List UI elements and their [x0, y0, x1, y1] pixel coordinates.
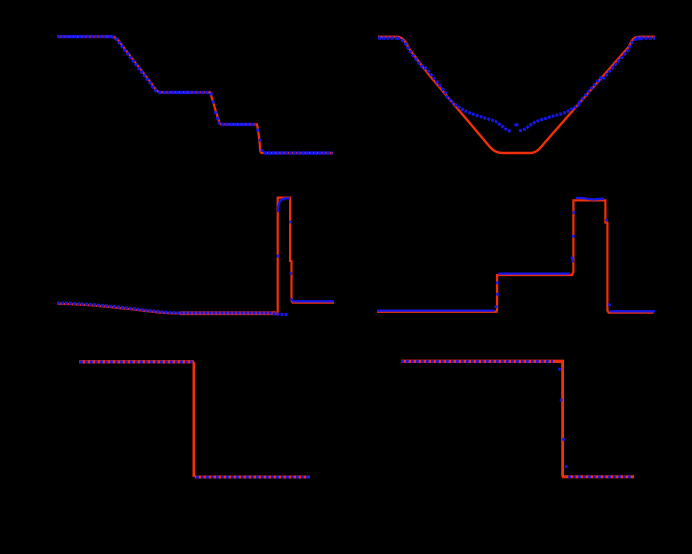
panel 2 blue markers: right flat [636, 36, 655, 39]
panel 2 blue markers on right slope, upper corner (below red) [601, 39, 642, 82]
panel 2 (top-right) red exact curve [378, 37, 655, 153]
panel 2 blue numerical markers, descent into basin [446, 96, 511, 132]
panel 1 blue markers: middle flat [221, 123, 256, 126]
panel 1 blue markers on rarefaction slope [111, 37, 164, 93]
panel 3 (mid-left) blue numerical line, left decline, flat, and dip [57, 303, 289, 315]
panel 4 blue dots on step-up [495, 281, 499, 308]
panel 3 blue right flat [292, 300, 333, 302]
panel 4 blue dots on spike right vertical [605, 219, 610, 306]
panel 4 blue top of spike [576, 198, 604, 200]
panel 2 (top-right) blue numerical markers, right branch out of basin [519, 103, 580, 130]
panel 4 (mid-right) red exact curve [377, 200, 654, 312]
panel 6 blue markers top flat [401, 360, 553, 363]
panel 2 blue markers on left slope, mid (above red) [423, 65, 447, 95]
panel 4 blue dot on spike lead-in [571, 257, 574, 260]
panel 1 blue markers: bottom flat [264, 151, 333, 154]
panel 6 blue dots near/on vertical [558, 368, 568, 468]
panel 3 blue rounded top-left corner of spike [278, 198, 290, 212]
panel 4 blue left flat [377, 309, 495, 311]
panel 4 blue dots on spike left vertical [571, 211, 575, 262]
panel 2 blue detached dash above basin center [514, 123, 518, 126]
panel 1 (top-left) red exact curve [57, 37, 333, 153]
panel 6 (bottom-right) red exact step [401, 360, 564, 363]
panel 3 red wide underlay on flat section [180, 311, 276, 315]
panel 1 (top-left) blue numerical markers: top flat [57, 35, 112, 38]
panel 1 blue markers: flat after rarefaction [163, 91, 209, 94]
panel 2 blue markers on right slope, lower (above red) [579, 76, 603, 103]
panel 2 blue markers: left flat [378, 36, 398, 39]
panel 6 blue markers bottom flat [568, 475, 633, 478]
panel 4 blue right flat [610, 310, 655, 312]
panel 2 blue markers on left slope, upper corner (below red) [397, 38, 425, 70]
panel 5 blue markers bottom flat [196, 476, 309, 479]
panel 4 blue middle flat [498, 272, 569, 274]
panel 3 blue dots on spike sides [277, 221, 294, 301]
panel 5 (bottom-left) red exact step [79, 360, 193, 363]
panel 5 blue markers top flat [80, 361, 193, 364]
panel 1 blue dots on shock [256, 129, 263, 152]
panel 1 blue dots on contact discontinuity [210, 93, 221, 125]
panel 3 (mid-left) red exact curve [57, 198, 334, 314]
